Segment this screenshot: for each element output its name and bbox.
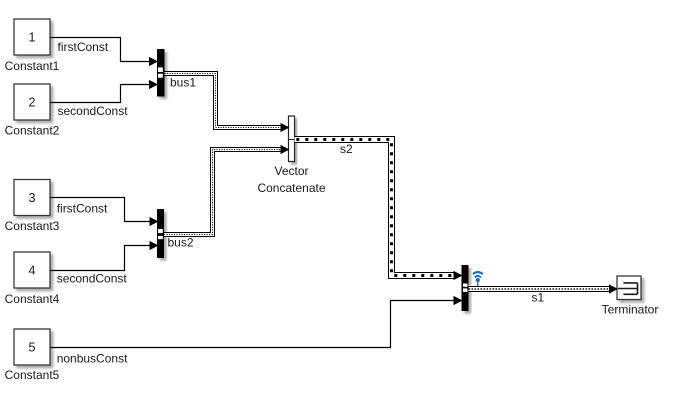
block Constant1 bbox=[14, 19, 50, 55]
arrow into bus1 input 2 bbox=[149, 80, 158, 89]
arrow into bus1 input 1 bbox=[149, 57, 158, 66]
streaming badge (blue antenna icon) bbox=[474, 272, 482, 287]
arrow into Vector Concatenate input 2 bbox=[281, 145, 290, 154]
svg-text:4: 4 bbox=[29, 264, 36, 278]
wire from Constant1 to bus1 input 1 bbox=[50, 38, 152, 62]
svg-text:s2: s2 bbox=[340, 142, 353, 156]
wire from Constant4 to bus2 input 2 bbox=[50, 246, 152, 271]
svg-text:bus1: bus1 bbox=[170, 76, 196, 90]
bus line s2 (Vector Concatenate output to bus creator input 1) bbox=[295, 137, 457, 279]
bus line bus1 (bus creator 1 output to Vector Concatenate input 1) bbox=[158, 67, 282, 129]
arrow into bus2 input 2 bbox=[150, 241, 159, 250]
svg-text:secondConst: secondConst bbox=[58, 104, 129, 118]
svg-text:firstConst: firstConst bbox=[57, 202, 108, 216]
svg-text:1: 1 bbox=[29, 31, 36, 45]
bus creator bus1 bar bbox=[157, 49, 165, 97]
block Vector Concatenate bbox=[289, 116, 295, 162]
bus line bus2 (bus creator 2 output to Vector Concatenate input 2) bbox=[158, 148, 282, 240]
arrow into bus2 input 1 bbox=[150, 217, 159, 226]
svg-text:3: 3 bbox=[29, 191, 36, 205]
svg-text:Constant3: Constant3 bbox=[5, 219, 60, 233]
wire from Constant3 to bus2 input 1 bbox=[50, 198, 152, 222]
bus creator s1 bar bbox=[462, 265, 469, 311]
bus line s1 (bus creator output to Terminator) bbox=[463, 284, 612, 293]
svg-text:bus2: bus2 bbox=[168, 236, 194, 250]
bus creator bus2 bar bbox=[157, 209, 164, 258]
block Terminator bbox=[617, 276, 641, 300]
svg-text:Concatenate: Concatenate bbox=[257, 181, 325, 195]
block Constant4 bbox=[14, 252, 50, 288]
svg-text:secondConst: secondConst bbox=[57, 272, 128, 286]
arrow into bus creator s1 input 2 bbox=[454, 296, 463, 305]
arrow into Vector Concatenate input 1 bbox=[281, 123, 290, 132]
block Constant5 bbox=[14, 329, 50, 365]
svg-text:5: 5 bbox=[29, 341, 36, 355]
block Constant2 bbox=[14, 84, 50, 120]
arrow into Terminator bbox=[609, 284, 618, 293]
svg-text:Constant1: Constant1 bbox=[5, 59, 60, 73]
wire from Constant2 to bus1 input 2 bbox=[50, 85, 152, 103]
svg-text:nonbusConst: nonbusConst bbox=[57, 352, 128, 366]
svg-text:s1: s1 bbox=[532, 291, 545, 305]
svg-text:2: 2 bbox=[29, 96, 36, 110]
svg-text:firstConst: firstConst bbox=[58, 40, 109, 54]
arrow into bus creator s1 input 1 bbox=[454, 271, 463, 280]
svg-text:Constant4: Constant4 bbox=[5, 292, 60, 306]
wire nonbusConst from Constant5 to bus creator input 2 bbox=[50, 301, 456, 348]
block Constant3 bbox=[14, 180, 50, 216]
svg-text:Terminator: Terminator bbox=[602, 302, 659, 316]
svg-text:Constant2: Constant2 bbox=[5, 124, 60, 138]
svg-text:Constant5: Constant5 bbox=[5, 368, 60, 382]
svg-text:Vector: Vector bbox=[274, 164, 308, 178]
